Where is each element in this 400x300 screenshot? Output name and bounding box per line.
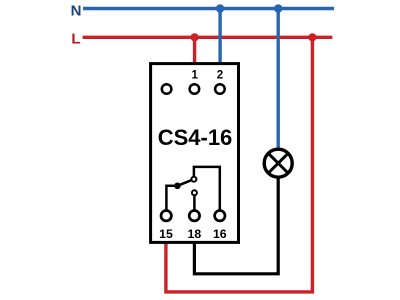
relay pivot junction <box>174 183 181 190</box>
terminal 18 <box>189 211 199 221</box>
svg-text:1: 1 <box>191 70 198 82</box>
wire lamp to terminal 18 <box>194 176 278 274</box>
contact point 18 (open) <box>192 190 197 195</box>
terminal 16 <box>215 211 225 221</box>
terminal 15 <box>161 211 171 221</box>
lamp E1 <box>264 149 292 177</box>
svg-text:2: 2 <box>217 70 223 82</box>
svg-text:18: 18 <box>188 227 202 241</box>
contact point 16 (closed) <box>191 177 196 182</box>
wire N bus <box>83 7 334 10</box>
svg-text:15: 15 <box>159 227 173 241</box>
relay contact: lead to 16 <box>194 167 220 210</box>
relay contact: moving arm <box>177 179 194 186</box>
terminal A1 (unmarked) <box>162 84 172 94</box>
wire N to lamp <box>277 9 280 151</box>
terminal 1 <box>190 84 200 94</box>
wire L bus <box>83 36 333 39</box>
junction dot N/terminal2 <box>216 4 225 13</box>
wire L return from terminal 15 <box>166 37 313 292</box>
junction dot N/lamp <box>274 4 283 13</box>
wire N to terminal 2 <box>218 9 221 65</box>
relay contact: lead to 18 <box>193 193 196 210</box>
junction dot L/return <box>308 33 316 41</box>
svg-text:16: 16 <box>213 227 227 241</box>
relay module CS4-16 body <box>151 64 239 243</box>
terminal 2 <box>215 84 225 94</box>
svg-text:L: L <box>71 30 80 47</box>
svg-text:CS4-16: CS4-16 <box>158 125 233 150</box>
relay contact: common lead from 15 <box>166 186 177 210</box>
junction dot L/terminal1 <box>191 33 199 41</box>
wire L to terminal 1 <box>193 37 196 64</box>
svg-text:N: N <box>71 2 82 19</box>
